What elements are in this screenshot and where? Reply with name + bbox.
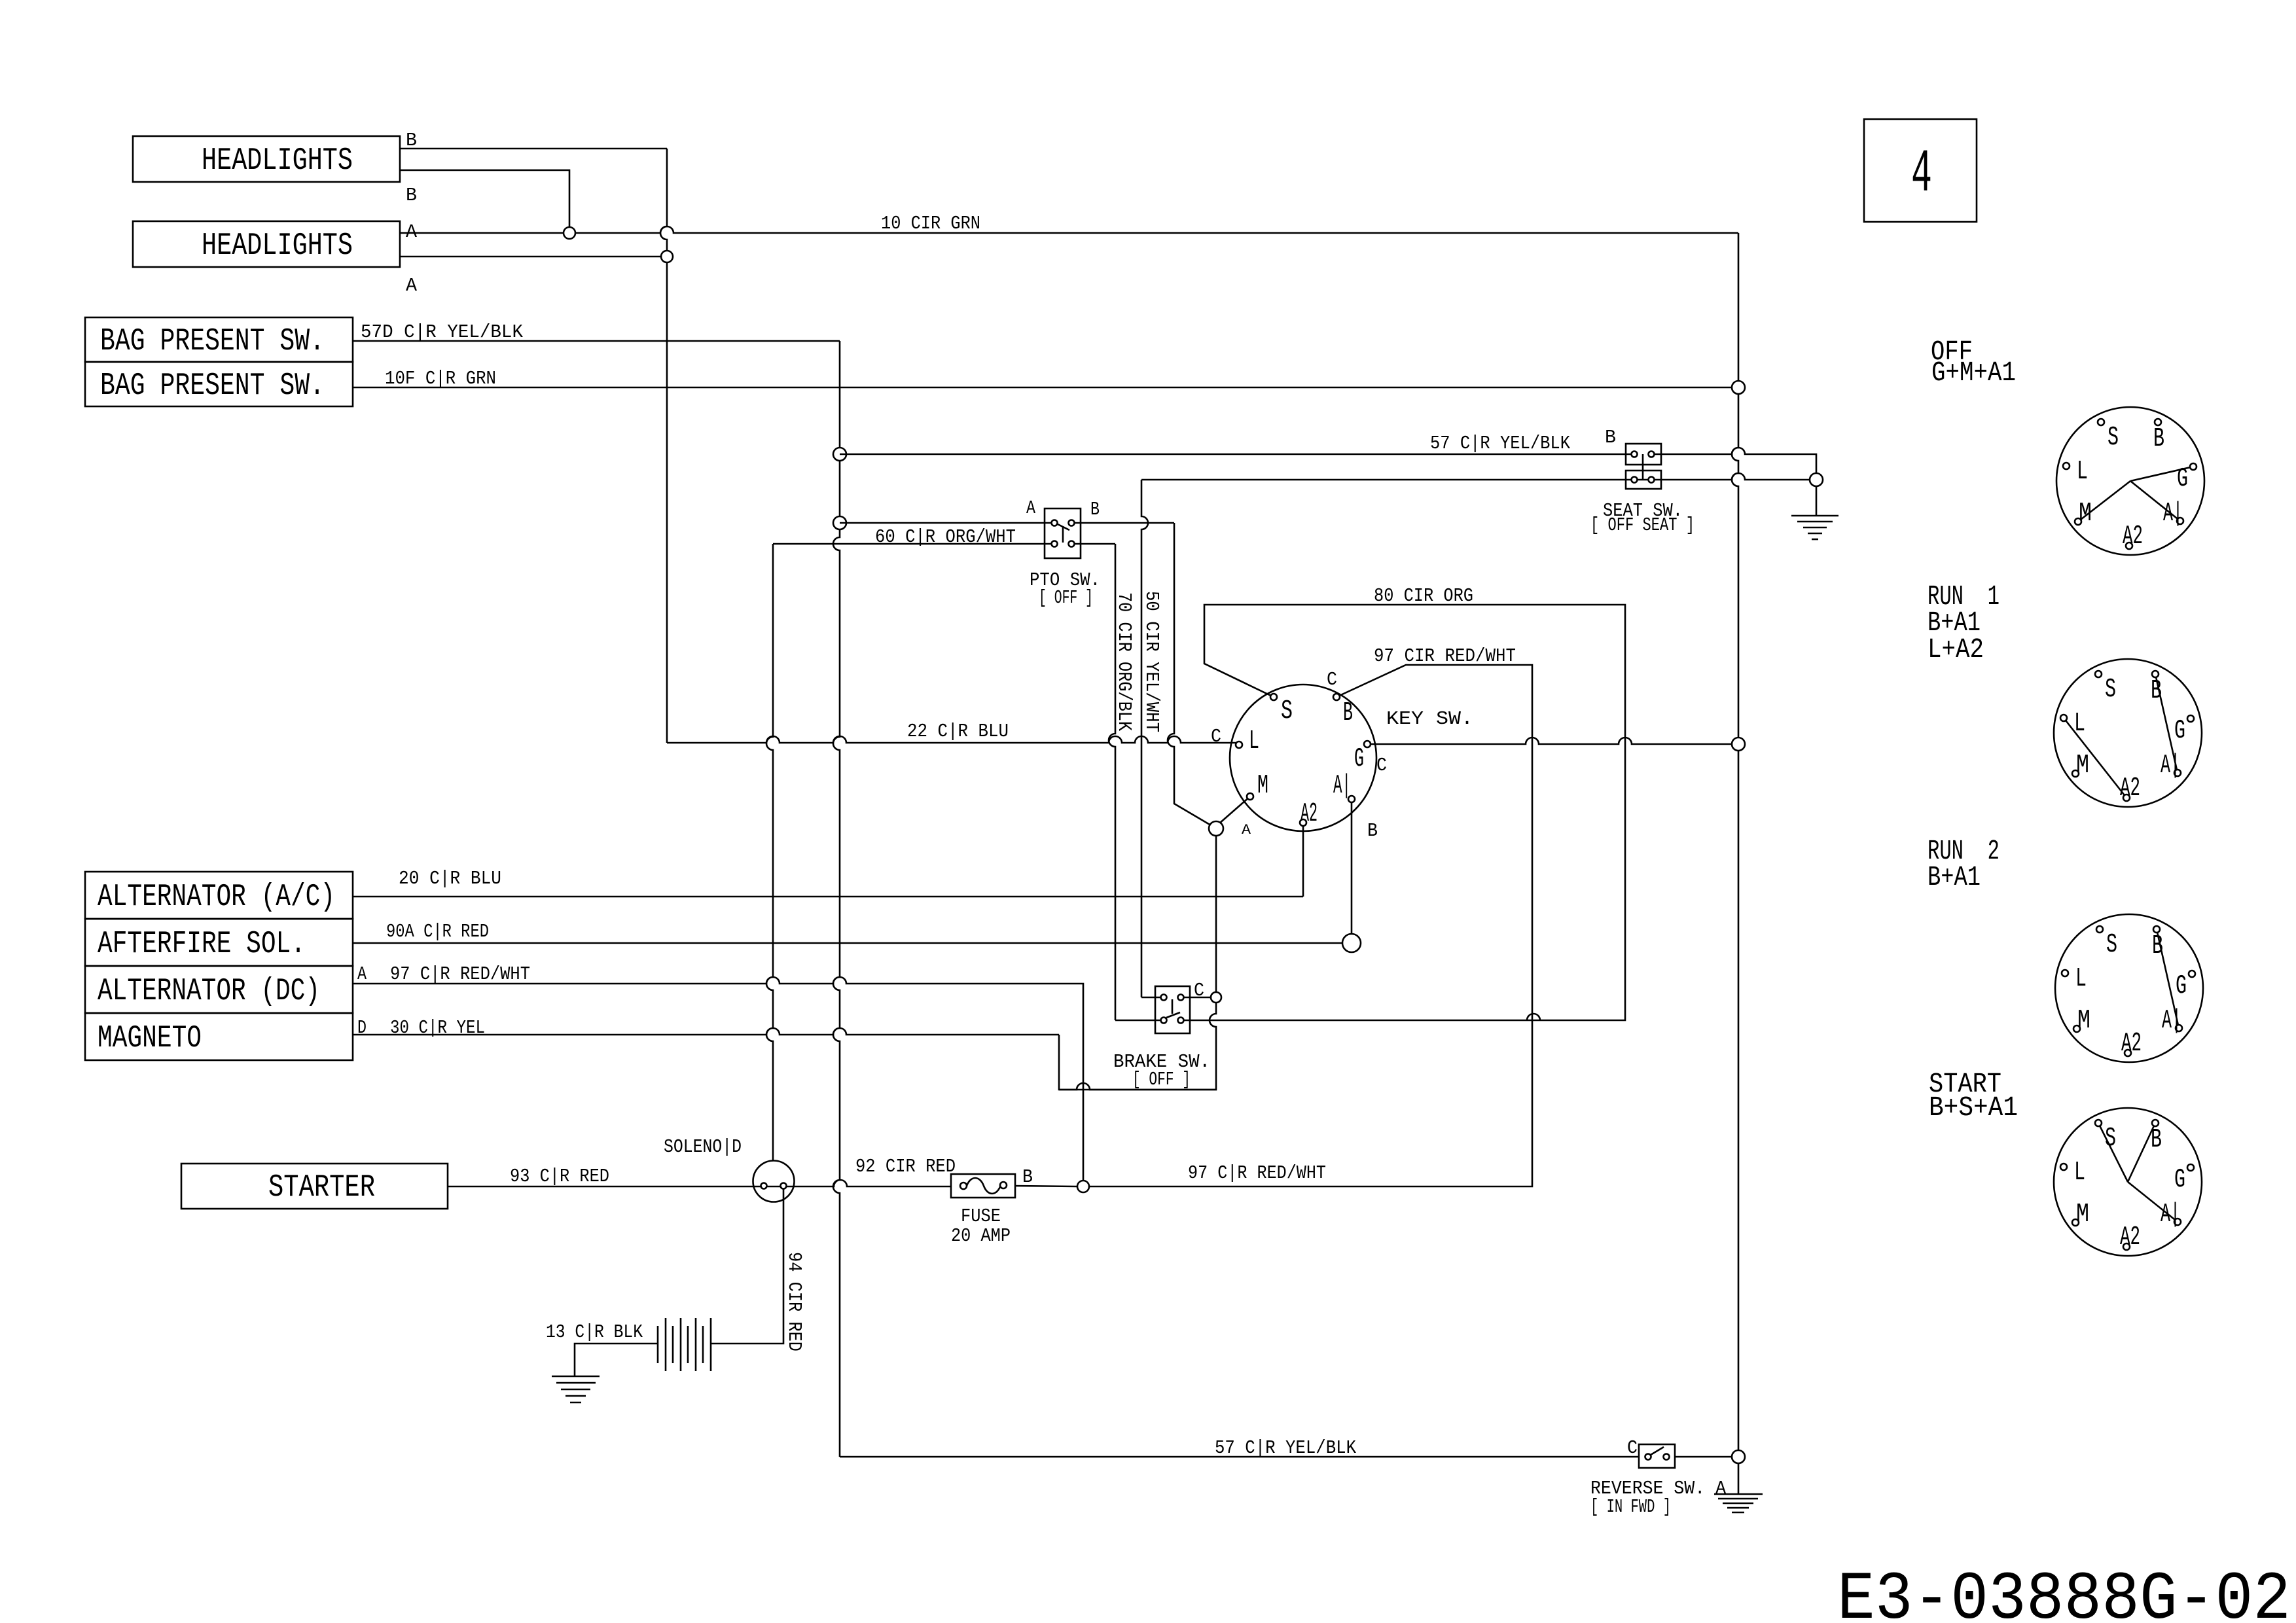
solenoid circle xyxy=(753,1161,795,1202)
wire 97 C|R RED/WHT (alternator DC) xyxy=(353,977,1083,1181)
seat switch box lower xyxy=(1626,471,1661,489)
key position circle OFF xyxy=(2056,407,2204,555)
brake switch blade xyxy=(1172,999,1174,1014)
svg-text:94 CIR RED: 94 CIR RED xyxy=(783,1252,805,1351)
svg-text:KEY SW.: KEY SW. xyxy=(1386,708,1473,730)
PTO switch box xyxy=(1045,508,1081,558)
node junction 22/ground bus xyxy=(1732,738,1745,751)
svg-text:B: B xyxy=(1022,1166,1033,1188)
svg-text:A: A xyxy=(1026,497,1035,519)
wire vertical 50 CIR YEL/WHT (seat to brake) xyxy=(1141,480,1148,997)
wire seat switch lower row xyxy=(1141,473,1810,480)
svg-text:L: L xyxy=(2074,709,2085,739)
node junction seat to ground xyxy=(1810,473,1823,486)
node junction 60 to PTO switch xyxy=(833,516,846,529)
wire reverse to ground junction xyxy=(1675,1456,1732,1458)
svg-text:A: A xyxy=(357,963,367,985)
OFF terminal A1 xyxy=(2177,518,2183,524)
solenoid terminal 1 xyxy=(761,1183,767,1189)
svg-text:G: G xyxy=(1354,744,1364,774)
svg-text:B+A1: B+A1 xyxy=(1928,861,1981,893)
svg-text:G: G xyxy=(2174,1165,2185,1195)
wire 13 C|R BLK (battery to ground) xyxy=(575,1344,658,1376)
RUN1 link L-A2 xyxy=(2064,718,2126,798)
node junction 10F/ground bus xyxy=(1732,381,1745,394)
wire vertical bus circuit 57 (x=1283) xyxy=(833,341,840,1457)
fuse terminal 1 xyxy=(960,1183,967,1189)
seat switch terminal 2 xyxy=(1649,452,1655,457)
svg-text:[ IN FWD ]: [ IN FWD ] xyxy=(1590,1496,1671,1518)
OFF terminal A2 xyxy=(2126,543,2132,549)
RUN2 terminal A2 xyxy=(2125,1050,2131,1056)
bag present switch box 1 xyxy=(85,317,353,362)
RUN1 terminal A2 xyxy=(2123,794,2130,801)
START terminal M xyxy=(2072,1219,2079,1226)
wire headlight A lower xyxy=(400,256,661,258)
starter box xyxy=(181,1164,448,1209)
svg-text:C: C xyxy=(1211,726,1221,747)
ground symbol seat switch xyxy=(1791,515,1839,517)
RUN1 terminal M xyxy=(2072,770,2079,777)
svg-text:57 C|R YEL/BLK: 57 C|R YEL/BLK xyxy=(1215,1437,1357,1459)
svg-text:93 C|R RED: 93 C|R RED xyxy=(510,1166,609,1187)
svg-text:B+S+A1: B+S+A1 xyxy=(1929,1092,2018,1124)
svg-text:L: L xyxy=(1249,726,1259,757)
alternator (A/C) box xyxy=(85,872,353,919)
svg-text:S: S xyxy=(2108,423,2119,453)
wire A1 terminal down to 90A junction xyxy=(1351,799,1353,934)
key terminal S xyxy=(1270,694,1277,700)
svg-text:G+M+A1: G+M+A1 xyxy=(1931,357,2016,389)
key terminal M xyxy=(1247,793,1253,800)
RUN2 terminal M xyxy=(2073,1026,2080,1032)
RUN1 terminal G xyxy=(2187,715,2194,722)
svg-text:BAG PRESENT SW.: BAG PRESENT SW. xyxy=(100,368,325,404)
svg-text:A|: A| xyxy=(2162,1006,2181,1036)
RUN1 terminal A1 xyxy=(2174,770,2181,776)
svg-text:D: D xyxy=(357,1017,367,1039)
svg-text:92 CIR RED: 92 CIR RED xyxy=(855,1156,956,1177)
wire 80 CIR ORG loop (S terminal to brake switch) xyxy=(1181,605,1625,1020)
OFF terminal B xyxy=(2155,419,2161,425)
svg-text:BAG PRESENT SW.: BAG PRESENT SW. xyxy=(100,324,325,359)
wire G terminal to ground bus xyxy=(1367,738,1738,744)
RUN2 terminal B xyxy=(2153,926,2160,933)
node junction 57 to seat switch xyxy=(833,448,846,461)
wire 92 CIR RED (solenoid to fuse) xyxy=(795,1180,951,1186)
svg-text:E3-03888G-02: E3-03888G-02 xyxy=(1837,1561,2291,1623)
svg-text:[ OFF SEAT ]: [ OFF SEAT ] xyxy=(1590,514,1695,536)
ground symbol reverse switch xyxy=(1714,1493,1763,1495)
RUN2 terminal G xyxy=(2189,971,2195,977)
svg-text:C: C xyxy=(1376,755,1387,776)
ground symbol battery xyxy=(552,1376,600,1378)
svg-text:B: B xyxy=(406,130,417,151)
svg-text:AFTERFIRE SOL.: AFTERFIRE SOL. xyxy=(98,927,306,962)
svg-text:[ OFF ]: [ OFF ] xyxy=(1039,587,1093,609)
reverse terminal 1 xyxy=(1645,1454,1651,1460)
RUN1 terminal L xyxy=(2060,715,2067,721)
wire vertical 70 CIR ORG/BLK xyxy=(1109,544,1115,1020)
svg-text:A2: A2 xyxy=(2120,1222,2140,1253)
svg-text:A: A xyxy=(1242,822,1251,838)
svg-text:HEADLIGHTS: HEADLIGHTS xyxy=(202,228,353,264)
wire brake bottom-left to 70 bus xyxy=(1115,1020,1164,1022)
svg-text:A2: A2 xyxy=(2121,1029,2142,1059)
headlights box 2 xyxy=(133,221,400,267)
wire 90A C|R RED (afterfire to A1) xyxy=(353,942,1342,944)
key terminal G xyxy=(1364,741,1371,747)
seat switch box upper xyxy=(1626,444,1661,465)
OFF terminal M xyxy=(2075,518,2081,525)
RUN2 link B-A1 xyxy=(2157,929,2179,1028)
svg-text:M: M xyxy=(2079,499,2092,529)
START terminal A2 xyxy=(2123,1243,2130,1250)
wire vertical PTO B drop to M node xyxy=(1168,523,1211,825)
svg-text:ALTERNATOR (DC): ALTERNATOR (DC) xyxy=(98,974,320,1009)
node junction circuit 22 xyxy=(661,251,673,262)
seat switch link xyxy=(1642,454,1644,480)
svg-text:S: S xyxy=(2105,675,2116,705)
svg-text:C: C xyxy=(1627,1437,1638,1459)
svg-text:B: B xyxy=(2151,1125,2162,1155)
svg-text:HEADLIGHTS: HEADLIGHTS xyxy=(202,143,353,179)
svg-text:10F C|R GRN: 10F C|R GRN xyxy=(385,368,496,389)
key switch circle xyxy=(1230,685,1376,831)
OFF link center-A1 xyxy=(2130,481,2180,521)
svg-text:B: B xyxy=(406,185,417,206)
wire brake top-left to 50 bus xyxy=(1141,997,1164,999)
brake terminal 1 xyxy=(1161,995,1167,1001)
seat switch terminal 1 xyxy=(1632,452,1638,457)
wire 60 C|R ORG/WHT (to PTO A) xyxy=(840,522,1054,524)
wire 57 C|R YEL/BLK to seat switch xyxy=(840,454,1634,455)
svg-text:20 C|R BLU: 20 C|R BLU xyxy=(399,868,501,889)
headlights box 1 xyxy=(133,136,400,182)
seat switch terminal 3 xyxy=(1632,477,1638,483)
svg-text:L: L xyxy=(2074,1158,2085,1188)
PTO terminal 4 xyxy=(1069,541,1075,547)
wire 57 C|R YEL/BLK bottom xyxy=(840,1456,1639,1458)
svg-text:20 AMP: 20 AMP xyxy=(951,1225,1011,1247)
wire magneto link under brake xyxy=(1059,1083,1217,1090)
svg-text:90A C|R RED: 90A C|R RED xyxy=(386,921,489,942)
svg-text:[ OFF ]: [ OFF ] xyxy=(1132,1069,1191,1090)
svg-text:L: L xyxy=(2077,457,2088,487)
RUN1 link B-A1 xyxy=(2155,674,2178,773)
svg-text:A2: A2 xyxy=(2123,522,2143,552)
wire vertical 94/soleno|d feed (x=1181) xyxy=(766,544,773,1160)
node junction headlight B/A xyxy=(564,227,575,239)
node junction fuse/97 xyxy=(1077,1181,1089,1192)
node M junction circle xyxy=(1209,821,1223,836)
svg-text:S: S xyxy=(1281,696,1293,726)
svg-text:G: G xyxy=(2174,716,2185,746)
wire 20 C|R BLU (alternator AC to A2) xyxy=(353,896,1303,898)
svg-text:B: B xyxy=(1090,499,1100,520)
wire PTO bottom right to 70 bus xyxy=(1071,543,1115,545)
wire M terminal diagonal to node A xyxy=(1219,796,1250,824)
svg-text:ALTERNATOR (A/C): ALTERNATOR (A/C) xyxy=(98,880,335,915)
svg-text:B: B xyxy=(1367,820,1378,842)
svg-text:L+A2: L+A2 xyxy=(1928,633,1984,666)
wire 22 C|R BLU to L terminal xyxy=(667,736,1236,743)
seat switch terminal 4 xyxy=(1649,477,1655,483)
svg-text:70 CIR ORG/BLK: 70 CIR ORG/BLK xyxy=(1113,592,1135,732)
RUN2 terminal A1 xyxy=(2176,1025,2182,1031)
svg-text:MAGNETO: MAGNETO xyxy=(98,1021,202,1056)
key terminal A1 xyxy=(1348,796,1355,802)
svg-text:B: B xyxy=(1343,698,1353,728)
reverse switch blade xyxy=(1651,1447,1664,1455)
PTO switch blade xyxy=(1058,524,1069,530)
RUN1 terminal B xyxy=(2152,671,2159,677)
wire through solenoid xyxy=(753,1186,795,1188)
fuse terminal 2 xyxy=(1000,1182,1007,1188)
wire 30 C|R YEL (magneto) xyxy=(353,1028,1059,1035)
svg-text:13 C|R BLK: 13 C|R BLK xyxy=(546,1321,643,1343)
wire 57D C|R YEL/BLK xyxy=(353,340,840,342)
key terminal B xyxy=(1333,694,1340,700)
svg-text:A|: A| xyxy=(2163,499,2183,529)
wire seat switch upper right to ground drop xyxy=(1651,448,1816,480)
svg-text:97 CIR RED/WHT: 97 CIR RED/WHT xyxy=(1374,645,1516,667)
svg-text:G: G xyxy=(2177,464,2188,494)
svg-text:FUSE: FUSE xyxy=(961,1205,1001,1227)
OFF terminal G xyxy=(2190,463,2197,470)
key terminal L xyxy=(1236,741,1242,748)
node junction reverse/ground bus xyxy=(1732,1450,1745,1463)
wire PTO bottom row xyxy=(773,543,1054,545)
OFF link center-M xyxy=(2078,481,2130,522)
svg-text:C: C xyxy=(1327,669,1337,690)
START link center-S xyxy=(2098,1123,2128,1182)
START terminal B xyxy=(2152,1120,2159,1126)
svg-text:A|: A| xyxy=(2161,1200,2180,1230)
wire fuse to junction xyxy=(1015,1186,1077,1186)
brake terminal 3 xyxy=(1161,1018,1167,1024)
wire PTO B out xyxy=(1071,522,1174,524)
wire headlight B upper (to vertical bus) xyxy=(400,148,667,150)
key terminal A2 xyxy=(1300,819,1306,826)
wire M node down to brake junction xyxy=(1059,835,1216,1090)
svg-text:10 CIR GRN: 10 CIR GRN xyxy=(881,213,980,234)
START terminal G xyxy=(2187,1164,2194,1171)
svg-text:50 CIR YEL/WHT: 50 CIR YEL/WHT xyxy=(1141,591,1162,732)
wire 97 CIR RED/WHT (B terminal diagonal to fuse junction) xyxy=(1089,665,1532,1186)
afterfire solenoid box xyxy=(85,919,353,966)
svg-text:B: B xyxy=(2153,424,2164,454)
START terminal L xyxy=(2060,1164,2067,1170)
wire 10 CIR GRN (headlight A upper to ground bus corner) xyxy=(400,226,1738,233)
wire ground bus to ground xyxy=(1738,1463,1740,1494)
RUN2 terminal S xyxy=(2096,926,2103,933)
wire 94 CIR RED (solenoid to battery) xyxy=(711,1188,783,1344)
svg-text:A: A xyxy=(406,221,418,243)
RUN2 terminal L xyxy=(2062,970,2068,976)
key position circle START xyxy=(2054,1108,2202,1256)
svg-text:97 C|R RED/WHT: 97 C|R RED/WHT xyxy=(390,963,530,985)
PTO terminal 3 xyxy=(1052,541,1058,547)
START terminal S xyxy=(2095,1120,2102,1126)
page number box 4 xyxy=(1864,119,1977,222)
reverse switch box xyxy=(1639,1444,1675,1468)
svg-text:57D C|R YEL/BLK: 57D C|R YEL/BLK xyxy=(361,321,524,343)
magneto box xyxy=(85,1013,353,1060)
svg-text:S: S xyxy=(2106,930,2117,960)
node junction A1/90A xyxy=(1342,934,1361,952)
node junction brake/M xyxy=(1211,992,1221,1003)
svg-text:4: 4 xyxy=(1911,140,1932,209)
svg-text:A2: A2 xyxy=(1300,799,1318,829)
solenoid terminal 2 xyxy=(781,1183,787,1189)
wire vertical bus circuit 22 (B feed down) xyxy=(660,149,667,743)
OFF link center-G xyxy=(2130,467,2193,481)
svg-text:S: S xyxy=(2105,1124,2116,1154)
svg-text:B: B xyxy=(2152,931,2163,961)
svg-text:STARTER: STARTER xyxy=(268,1170,375,1205)
bag present switch box 2 xyxy=(85,362,353,406)
PTO terminal 2 xyxy=(1069,520,1075,526)
wire headlight B lower xyxy=(400,170,569,227)
START link center-A1 xyxy=(2128,1182,2178,1222)
svg-text:30 C|R YEL: 30 C|R YEL xyxy=(390,1017,485,1039)
PTO terminal 1 xyxy=(1052,520,1058,526)
svg-text:L: L xyxy=(2075,964,2087,994)
RUN1 terminal S xyxy=(2095,671,2102,677)
START terminal A1 xyxy=(2174,1219,2181,1225)
svg-text:A: A xyxy=(406,275,418,296)
wire A2 terminal down to 20 BLU xyxy=(1302,823,1304,897)
key position circle RUN1 xyxy=(2054,659,2202,807)
key position circle RUN2 xyxy=(2055,914,2203,1062)
battery xyxy=(657,1326,659,1363)
svg-text:M: M xyxy=(2077,1006,2090,1036)
svg-text:M: M xyxy=(1257,771,1268,801)
wire 10F C|R GRN xyxy=(353,387,1732,389)
fuse box xyxy=(951,1174,1015,1198)
wire ground bus vertical (10 CIR GRN drop) xyxy=(1732,233,1738,1457)
svg-text:22 C|R BLU: 22 C|R BLU xyxy=(907,721,1009,742)
svg-text:A|: A| xyxy=(1333,771,1351,801)
reverse terminal 2 xyxy=(1664,1454,1670,1460)
svg-text:SOLENO|D: SOLENO|D xyxy=(664,1136,742,1158)
brake terminal 4 xyxy=(1178,1018,1184,1024)
svg-text:M: M xyxy=(2076,1200,2089,1230)
brake terminal 2 xyxy=(1178,995,1184,1001)
svg-text:G: G xyxy=(2176,971,2187,1001)
fuse element xyxy=(967,1178,1001,1194)
svg-text:B: B xyxy=(1605,427,1616,448)
wire 93 C|R RED (starter to solenoid) xyxy=(448,1186,753,1188)
svg-text:M: M xyxy=(2076,751,2089,781)
alternator (DC) box xyxy=(85,966,353,1013)
svg-text:A|: A| xyxy=(2161,751,2180,781)
wire brake top-right to junction xyxy=(1181,997,1211,999)
wire seat ground drop xyxy=(1816,486,1818,516)
brake switch box xyxy=(1155,986,1190,1033)
svg-text:97 C|R RED/WHT: 97 C|R RED/WHT xyxy=(1188,1162,1326,1184)
svg-text:A2: A2 xyxy=(2120,774,2140,804)
OFF terminal L xyxy=(2063,463,2070,469)
START link center-B xyxy=(2128,1123,2155,1182)
svg-text:B: B xyxy=(2151,676,2162,706)
OFF terminal S xyxy=(2098,419,2104,425)
svg-text:57 C|R YEL/BLK: 57 C|R YEL/BLK xyxy=(1430,433,1571,454)
svg-text:80 CIR ORG: 80 CIR ORG xyxy=(1374,585,1473,607)
